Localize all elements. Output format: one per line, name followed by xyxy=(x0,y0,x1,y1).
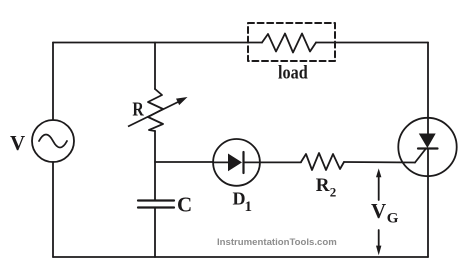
resistor R wiper arrow shaft xyxy=(128,102,178,127)
wire middle vertical below C xyxy=(154,208,156,258)
svg-text:R: R xyxy=(316,175,330,196)
capacitor C bottom plate xyxy=(138,206,174,208)
svg-text:load: load xyxy=(278,64,308,84)
capacitor C top plate xyxy=(138,199,174,201)
svg-text:C: C xyxy=(177,193,192,217)
wire R2 to SCR gate xyxy=(344,161,415,164)
load dashed box xyxy=(248,23,335,61)
resistor R zigzag (variable) xyxy=(148,89,163,131)
svg-text:V: V xyxy=(371,199,386,223)
VG arrowhead up xyxy=(376,168,381,177)
wire left vertical upper xyxy=(52,43,54,121)
diode D1 wire inside right xyxy=(244,161,261,163)
SCR gate diagonal lead xyxy=(415,149,426,163)
svg-text:InstrumentationTools.com: InstrumentationTools.com xyxy=(217,237,337,248)
diode D1 triangle xyxy=(228,154,242,172)
wire right vertical upper xyxy=(427,43,429,135)
resistor load zigzag xyxy=(262,34,316,53)
diode D1 cathode bar xyxy=(242,152,244,173)
diode D1 circle xyxy=(213,139,260,186)
svg-text:R: R xyxy=(132,98,144,120)
SCR U1 circle xyxy=(398,118,456,176)
VG arrow lower shaft xyxy=(378,230,380,247)
wire right vertical lower xyxy=(427,149,429,258)
AC source V circle xyxy=(32,120,74,162)
wire top-right horizontal xyxy=(316,42,428,44)
wire diode to R2 xyxy=(260,161,301,163)
wire top-left horizontal xyxy=(53,42,262,44)
VG arrow upper shaft xyxy=(378,176,380,200)
svg-text:V: V xyxy=(10,131,25,155)
wire left vertical lower xyxy=(52,162,54,257)
SCR cathode bar xyxy=(418,147,438,149)
VG arrowhead down xyxy=(376,246,381,256)
wire middle vertical between R and C xyxy=(154,131,156,200)
wire gate horizontal from node to diode xyxy=(155,161,213,163)
AC source sine wave xyxy=(39,135,67,148)
SCR triangle xyxy=(419,134,436,149)
diode D1 wire inside left xyxy=(213,161,228,163)
wire middle vertical upper xyxy=(154,43,156,90)
svg-text:2: 2 xyxy=(330,184,337,199)
resistor R2 zigzag xyxy=(301,153,344,170)
svg-text:G: G xyxy=(387,211,399,227)
svg-text:1: 1 xyxy=(245,199,253,215)
wire bottom horizontal xyxy=(53,256,428,258)
resistor R wiper arrowhead xyxy=(176,97,188,105)
